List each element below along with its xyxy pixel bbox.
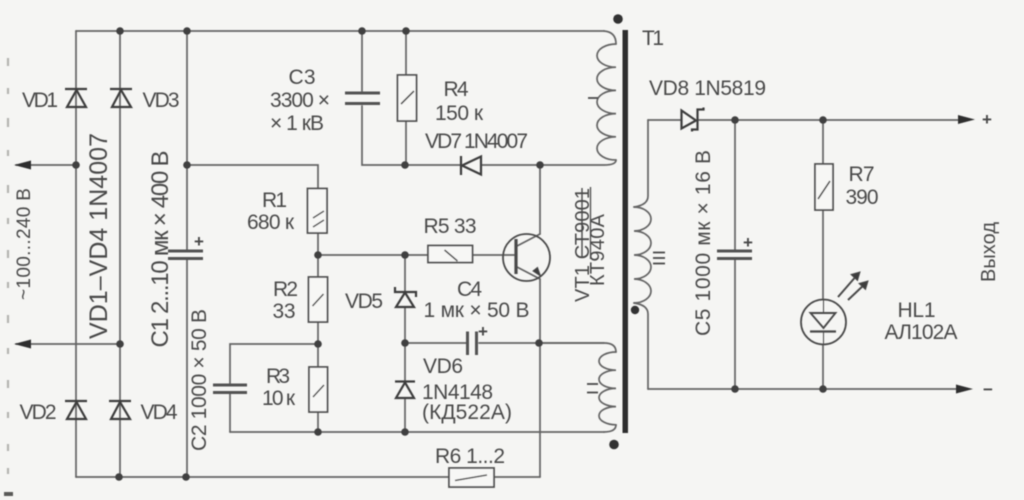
- svg-text:VD5: VD5: [345, 290, 383, 313]
- svg-text:−: −: [983, 380, 993, 399]
- svg-text:C3: C3: [289, 66, 316, 89]
- svg-text:Выход: Выход: [978, 222, 1000, 282]
- svg-text:+: +: [743, 233, 753, 252]
- svg-text:+: +: [478, 322, 488, 341]
- svg-text:VD2: VD2: [20, 401, 57, 424]
- svg-text:VD1: VD1: [22, 89, 58, 112]
- svg-text:390: 390: [846, 186, 879, 209]
- svg-text:1 мк × 50 В: 1 мк × 50 В: [424, 299, 530, 322]
- svg-text:R1: R1: [262, 189, 287, 212]
- svg-text:R2: R2: [273, 278, 298, 301]
- svg-text:(КД522А): (КД522А): [422, 401, 512, 424]
- svg-text:VD1–VD4 1N4007: VD1–VD4 1N4007: [85, 133, 113, 339]
- svg-text:VD6: VD6: [423, 355, 463, 378]
- svg-text:+: +: [982, 110, 992, 129]
- svg-text:33: 33: [273, 300, 296, 323]
- svg-text:T1: T1: [642, 27, 664, 50]
- svg-text:C4: C4: [457, 278, 482, 301]
- svg-text:HL1: HL1: [898, 299, 936, 322]
- svg-text:~100...240 В: ~100...240 В: [14, 188, 35, 300]
- svg-text:VD7 1N4007: VD7 1N4007: [425, 130, 528, 153]
- svg-text:150 к: 150 к: [435, 102, 484, 125]
- svg-text:3300 ×: 3300 ×: [270, 89, 330, 112]
- svg-text:C5 1000 мк × 16 В: C5 1000 мк × 16 В: [692, 150, 715, 336]
- svg-text:R3: R3: [266, 365, 290, 388]
- svg-text:10 к: 10 к: [262, 387, 296, 410]
- svg-text:R6 1...2: R6 1...2: [435, 445, 505, 468]
- svg-text:+: +: [194, 232, 204, 251]
- svg-text:R5 33: R5 33: [424, 215, 477, 238]
- svg-text:× 1 кВ: × 1 кВ: [270, 112, 324, 135]
- svg-text:C1 2...10 мк × 400 В: C1 2...10 мк × 400 В: [147, 151, 174, 348]
- svg-text:VD3: VD3: [143, 89, 180, 112]
- svg-text:680 к: 680 к: [247, 211, 295, 234]
- svg-text:C2 1000 × 50 В: C2 1000 × 50 В: [188, 309, 211, 451]
- svg-text:R7: R7: [849, 163, 875, 186]
- svg-text:R4: R4: [444, 78, 469, 101]
- svg-text:VD8 1N5819: VD8 1N5819: [649, 77, 766, 100]
- svg-text:VD4: VD4: [141, 401, 178, 424]
- svg-text:АЛ102А: АЛ102А: [885, 321, 958, 344]
